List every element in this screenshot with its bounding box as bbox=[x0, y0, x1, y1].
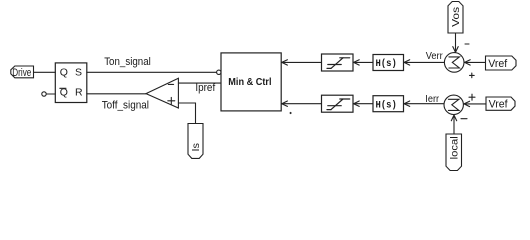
svg-text:Vref: Vref bbox=[488, 58, 508, 70]
svg-text:Drive: Drive bbox=[12, 67, 31, 79]
svg-text:H(s): H(s) bbox=[376, 58, 397, 70]
svg-text:Min & Ctrl: Min & Ctrl bbox=[228, 76, 271, 88]
svg-text:Toff_signal: Toff_signal bbox=[102, 99, 149, 111]
svg-text:Vref: Vref bbox=[489, 99, 509, 111]
svg-text:Is: Is bbox=[190, 143, 202, 152]
svg-text:local: local bbox=[448, 136, 460, 159]
svg-text:Q: Q bbox=[60, 87, 68, 99]
svg-text:S: S bbox=[75, 67, 82, 79]
svg-text:Vos: Vos bbox=[450, 7, 462, 27]
svg-text:Verr: Verr bbox=[426, 51, 444, 62]
svg-text:Ierr: Ierr bbox=[425, 94, 439, 105]
svg-text:H(s): H(s) bbox=[376, 99, 397, 111]
svg-text:Ipref: Ipref bbox=[195, 82, 216, 94]
svg-text:Ton_signal: Ton_signal bbox=[104, 56, 151, 68]
svg-text:R: R bbox=[75, 87, 83, 99]
svg-text:Q: Q bbox=[60, 67, 68, 79]
